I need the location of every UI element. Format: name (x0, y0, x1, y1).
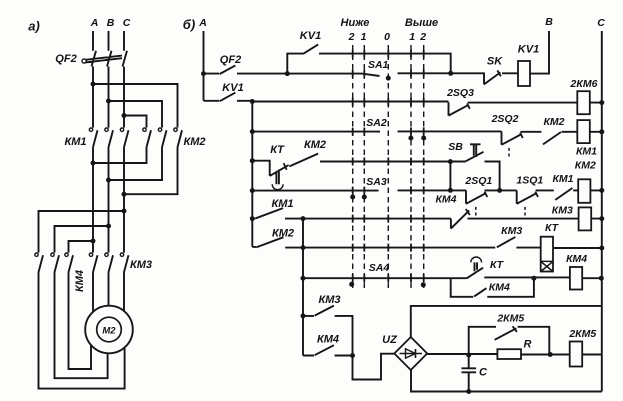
svg-text:С: С (479, 367, 488, 379)
svg-text:R: R (524, 339, 532, 351)
svg-text:1: 1 (409, 31, 415, 43)
svg-text:2КМ5: 2КМ5 (568, 328, 596, 340)
svg-text:а): а) (28, 19, 40, 34)
svg-text:М2: М2 (102, 326, 116, 337)
svg-text:QF2: QF2 (220, 54, 241, 66)
svg-text:KV1: KV1 (518, 44, 539, 56)
svg-text:SA3: SA3 (366, 176, 387, 188)
svg-text:SA2: SA2 (366, 117, 387, 129)
svg-text:0: 0 (384, 31, 390, 43)
svg-text:КМ4: КМ4 (74, 270, 86, 292)
svg-text:КМ2: КМ2 (575, 160, 596, 172)
svg-text:2: 2 (348, 31, 355, 43)
svg-text:1SQ1: 1SQ1 (516, 175, 543, 187)
svg-text:SA4: SA4 (369, 262, 390, 274)
svg-text:QF2: QF2 (55, 53, 76, 65)
svg-text:С: С (123, 17, 131, 29)
svg-text:КТ: КТ (270, 144, 285, 156)
svg-text:2КМ6: 2КМ6 (570, 78, 598, 90)
svg-text:В: В (107, 17, 115, 29)
svg-text:А: А (90, 17, 99, 29)
svg-text:KV1: KV1 (300, 30, 321, 42)
svg-text:SK: SK (487, 56, 503, 68)
svg-text:А: А (198, 17, 207, 29)
svg-text:КМ1: КМ1 (552, 173, 573, 185)
svg-text:Выше: Выше (405, 17, 438, 29)
svg-text:КМ1: КМ1 (64, 136, 86, 148)
svg-text:КМ4: КМ4 (566, 253, 587, 265)
svg-text:КМ3: КМ3 (130, 259, 152, 271)
svg-text:2SQ1: 2SQ1 (464, 175, 492, 187)
svg-text:SA1: SA1 (368, 59, 389, 71)
svg-text:UZ: UZ (382, 334, 398, 346)
svg-text:2SQ2: 2SQ2 (491, 113, 519, 125)
svg-text:2SQ3: 2SQ3 (446, 87, 474, 99)
svg-text:КМ2: КМ2 (304, 139, 326, 151)
svg-text:КТ: КТ (490, 259, 505, 271)
svg-text:КМ3: КМ3 (552, 205, 573, 217)
svg-text:КМ2: КМ2 (183, 136, 205, 148)
svg-text:2КМ5: 2КМ5 (496, 313, 524, 325)
svg-text:КМ3: КМ3 (318, 294, 340, 306)
svg-text:КМ4: КМ4 (489, 282, 510, 294)
svg-text:КМ4: КМ4 (435, 194, 456, 206)
svg-text:Ниже: Ниже (341, 17, 370, 29)
svg-text:КМ3: КМ3 (501, 225, 522, 237)
svg-text:2: 2 (419, 31, 426, 43)
svg-text:SB: SB (448, 141, 463, 153)
svg-text:1: 1 (361, 31, 367, 43)
svg-text:КТ: КТ (545, 222, 560, 234)
svg-text:КМ2: КМ2 (272, 228, 294, 240)
svg-text:KV1: KV1 (222, 82, 243, 94)
svg-text:КМ4: КМ4 (317, 334, 339, 346)
svg-text:С: С (597, 17, 605, 29)
svg-text:КМ2: КМ2 (543, 116, 564, 128)
svg-text:КМ1: КМ1 (271, 198, 293, 210)
svg-text:В: В (545, 16, 553, 28)
svg-text:КМ1: КМ1 (576, 146, 597, 158)
svg-text:б): б) (183, 17, 195, 32)
